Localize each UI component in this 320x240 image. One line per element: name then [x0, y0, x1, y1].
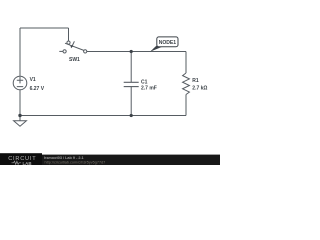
voltage source V1	[13, 76, 27, 90]
wire top rail	[20, 27, 69, 29]
wire capacitor bottom lead	[130, 87, 132, 116]
wire left rail lower	[19, 90, 21, 116]
ground	[14, 116, 27, 127]
wire top right rail	[87, 51, 186, 53]
switch right terminal	[84, 50, 87, 53]
wire bottom rail	[20, 115, 186, 117]
switch arrow	[72, 41, 74, 46]
resistor R1	[183, 73, 190, 95]
svg-text:6.27 V: 6.27 V	[30, 86, 45, 92]
label C1 value	[141, 80, 157, 92]
footer bar	[0, 155, 220, 165]
wire resistor bottom lead	[185, 95, 187, 116]
wire left rail upper	[19, 28, 21, 76]
capacitor C1	[124, 82, 139, 86]
wire resistor top lead	[185, 52, 187, 74]
switch arrowhead	[70, 45, 73, 48]
svg-text:LAB: LAB	[23, 161, 32, 165]
node dot capacitor bottom	[130, 114, 133, 117]
node dot capacitor top	[130, 50, 133, 53]
svg-text:2.7 kΩ: 2.7 kΩ	[192, 86, 207, 92]
switch SW1	[59, 41, 86, 53]
svg-text:NODE1: NODE1	[159, 40, 176, 46]
wire capacitor top lead	[130, 52, 132, 83]
svg-text:http://circuitlab.com/c/h3r5yv: http://circuitlab.com/c/h3r5yv5g77d7	[45, 160, 106, 164]
svg-text:C1: C1	[141, 80, 148, 86]
logo CircuitLab	[8, 156, 36, 166]
svg-text:V1: V1	[30, 77, 36, 83]
node NODE1 flag	[150, 45, 163, 52]
switch top terminal	[67, 41, 70, 44]
label V1 value	[30, 77, 45, 92]
wire switch drop	[68, 28, 70, 41]
switch left terminal	[63, 50, 66, 53]
svg-text:SW1: SW1	[69, 57, 80, 63]
label R1 value	[192, 78, 207, 92]
svg-text:hsmoot03 / Lab 9 - 2.1: hsmoot03 / Lab 9 - 2.1	[44, 156, 84, 160]
svg-text:R1: R1	[192, 78, 199, 84]
node junction dot ground	[18, 114, 21, 117]
switch left stub	[59, 50, 63, 52]
switch lever	[65, 43, 84, 50]
svg-text:2.7 mF: 2.7 mF	[141, 86, 157, 92]
